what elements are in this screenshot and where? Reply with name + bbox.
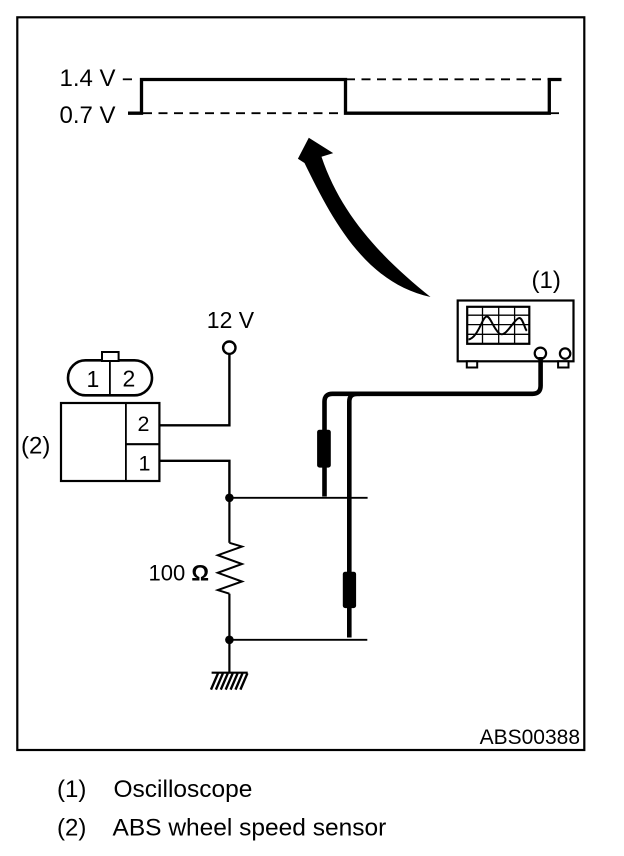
frame border xyxy=(17,17,584,750)
svg-text:ABS00388: ABS00388 xyxy=(480,726,580,749)
wire node A to resistor R xyxy=(228,498,230,543)
svg-text:ABS wheel speed sensor: ABS wheel speed sensor xyxy=(113,815,387,842)
ground symbol hatching xyxy=(211,673,247,689)
wire from 12V terminal to sensor pin 2 xyxy=(160,354,229,425)
svg-text:1: 1 xyxy=(139,452,151,476)
svg-text:(2): (2) xyxy=(21,433,50,460)
wire resistor to node B xyxy=(228,594,230,640)
oscilloscope knob A (probe jack) xyxy=(535,348,546,359)
thick probe cable branch to lower test point xyxy=(349,394,360,638)
12V supply terminal circle xyxy=(223,342,235,354)
svg-text:1: 1 xyxy=(87,366,100,392)
probe inline connector blob upper xyxy=(317,430,331,468)
wire node A to upper probe test point xyxy=(229,497,367,499)
svg-text:12 V: 12 V xyxy=(207,307,255,333)
curved arrow from oscilloscope to waveform xyxy=(298,138,431,297)
oscilloscope left foot xyxy=(467,361,477,367)
ABS wheel speed sensor box xyxy=(61,403,159,481)
oscilloscope U1 body xyxy=(458,301,574,362)
svg-text:(1): (1) xyxy=(57,776,86,803)
svg-text:(2): (2) xyxy=(57,815,86,842)
waveform 0.7V dashed reference line xyxy=(143,112,345,114)
oscilloscope screen sine trace xyxy=(469,316,527,339)
node B junction dot xyxy=(225,636,234,645)
oscilloscope knob B xyxy=(560,348,570,358)
waveform 1.4V dashed reference line (left stub) xyxy=(123,78,132,80)
svg-text:Oscilloscope: Oscilloscope xyxy=(114,776,253,803)
svg-text:2: 2 xyxy=(138,412,150,436)
wire node B to ground xyxy=(228,640,230,673)
svg-text:1.4 V: 1.4 V xyxy=(60,65,116,92)
connector face view oval xyxy=(68,360,152,395)
svg-text:0.7 V: 0.7 V xyxy=(60,102,116,129)
square wave signal trace xyxy=(128,80,562,114)
ground symbol bar xyxy=(212,672,248,674)
probe inline connector blob lower xyxy=(343,572,356,608)
sensor pin cell divider xyxy=(126,443,159,445)
connector divider xyxy=(109,361,111,396)
wire from sensor pin 1 down to node A xyxy=(160,461,229,498)
oscilloscope screen xyxy=(467,307,529,344)
oscilloscope screen grid vertical lines xyxy=(483,307,515,344)
node A junction dot xyxy=(225,494,234,503)
connector tab xyxy=(102,352,119,361)
oscilloscope screen grid horizontal lines xyxy=(467,315,529,334)
waveform 1.4V dashed reference line xyxy=(346,78,549,80)
svg-text:(1): (1) xyxy=(532,267,561,294)
oscilloscope right foot xyxy=(558,361,568,367)
wire node B to lower probe test point xyxy=(229,639,367,641)
waveform 0.7V dashed reference line (right stub) xyxy=(550,112,562,114)
resistor 100 ohm zigzag xyxy=(218,543,242,594)
svg-text:100 Ω: 100 Ω xyxy=(149,561,209,586)
sensor pin column divider xyxy=(125,403,127,481)
thick probe cable from scope jack to upper test point xyxy=(325,357,541,497)
svg-text:2: 2 xyxy=(123,366,136,392)
